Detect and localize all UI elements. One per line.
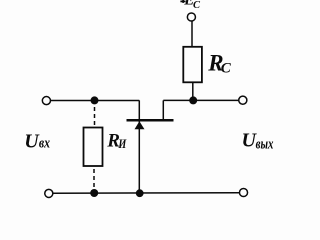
transistor VT drain lead [162, 100, 164, 119]
resistor Rc [183, 47, 202, 83]
transistor VT source-gate lead [138, 100, 140, 193]
transistor VT channel bar [127, 119, 174, 122]
svg-text:И: И [118, 137, 128, 151]
node drain junction [189, 96, 197, 104]
wire dashed Ri top [94, 107, 96, 128]
svg-text:C: C [221, 61, 232, 77]
svg-text:U: U [24, 130, 40, 152]
resistor Ri [84, 128, 103, 167]
wire bottom rail [53, 192, 240, 194]
transistor VT gate arrow [135, 121, 145, 129]
node bottom left junction [90, 189, 98, 197]
wire Ec to Rc [191, 21, 193, 47]
terminal input bottom [45, 189, 53, 197]
terminal output bottom [239, 188, 247, 196]
svg-text:вых: вых [256, 136, 274, 152]
svg-text:вх: вх [39, 136, 51, 152]
terminal +Ec [187, 13, 195, 21]
wire dashed Ri bottom [93, 169, 95, 193]
terminal input top [42, 97, 50, 105]
svg-text:C: C [193, 0, 201, 11]
wire Rc to drain node [192, 82, 194, 100]
terminal output top [239, 96, 247, 104]
node gate bottom junction [136, 189, 144, 197]
wire drain rail [163, 99, 238, 101]
label +Ec [180, 1, 185, 3]
wire input top rail [51, 100, 140, 102]
node source junction [91, 96, 99, 104]
